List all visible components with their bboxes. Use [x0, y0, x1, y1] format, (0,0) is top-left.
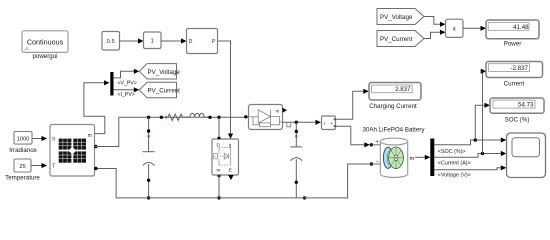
- svg-text:Irradiance: Irradiance: [9, 147, 37, 154]
- svg-text:PV_Voltage: PV_Voltage: [148, 69, 181, 76]
- current measurement block: [322, 116, 336, 130]
- wire 1 to MPPT D: [161, 38, 187, 43]
- svg-text:powergui: powergui: [32, 53, 57, 60]
- PV array block: [50, 125, 98, 177]
- constant block 1: [144, 32, 162, 49]
- MOSFET m output stub arrow: [228, 175, 234, 180]
- wire diode to current sensor: [283, 120, 322, 127]
- battery - wire to bottom rail: [296, 159, 380, 198]
- junction node at left capacitor: [147, 116, 150, 119]
- svg-text:Ir: Ir: [52, 137, 55, 143]
- wire 25 to T: [31, 163, 47, 168]
- svg-text:x: x: [453, 27, 456, 33]
- diode block D1: [249, 105, 288, 130]
- svg-text:PV_Current: PV_Current: [380, 36, 413, 43]
- MPPT subsystem block D/P: [187, 29, 218, 54]
- PV - port dot: [94, 167, 97, 170]
- battery block (cylinder): [380, 138, 407, 177]
- PV + port dot: [94, 145, 97, 148]
- svg-text:1: 1: [151, 39, 154, 45]
- svg-text:0.5: 0.5: [107, 39, 115, 45]
- svg-text:Continuous: Continuous: [27, 37, 64, 46]
- svg-text:m: m: [217, 168, 221, 173]
- wire 0.5 to 1: [120, 38, 144, 43]
- from tag PV_Voltage: [377, 9, 424, 25]
- wire PV_Current to product: [424, 30, 446, 39]
- svg-text:<Current (A)>: <Current (A)>: [438, 161, 471, 167]
- constant block 0.5: [102, 32, 120, 51]
- wire bus to PV_Current goto: [114, 87, 140, 92]
- svg-text:2.837: 2.837: [395, 86, 411, 93]
- wire MPPT P to MOSFET gate: [218, 41, 234, 139]
- battery m output wire: [410, 155, 431, 162]
- svg-text:Power: Power: [504, 41, 522, 48]
- svg-text:<I_PV>: <I_PV>: [118, 92, 135, 98]
- svg-text:i: i: [324, 121, 325, 127]
- junction node MOSFET drain: [217, 116, 220, 119]
- svg-text:–: –: [376, 159, 379, 165]
- wire 1000 to Ir: [32, 136, 47, 141]
- wire sensor i to charging display: [336, 89, 369, 120]
- wire PV m to bus selector (staircase): [84, 80, 110, 133]
- display Power: [486, 20, 539, 48]
- wire sensor - to battery +: [336, 126, 381, 147]
- from tag PV_Current: [377, 31, 424, 47]
- PV panel icon: [59, 139, 86, 163]
- wire SOC to scope and display: [434, 103, 506, 145]
- svg-text:<Voltage (V)>: <Voltage (V)>: [438, 172, 471, 178]
- powergui block U_powergui: [22, 31, 68, 60]
- svg-text:T: T: [52, 164, 55, 170]
- svg-text:m: m: [410, 156, 415, 162]
- junction node at right capacitor: [295, 121, 298, 124]
- MOSFET block: [212, 137, 239, 177]
- svg-text:+: +: [376, 139, 379, 145]
- svg-text:25: 25: [19, 164, 25, 170]
- display SOC: [490, 98, 544, 123]
- svg-text:41.48: 41.48: [513, 24, 529, 31]
- capacitor C1 (left): [143, 117, 155, 199]
- bottom rail wire: [98, 169, 297, 198]
- wire product to Power display: [463, 26, 486, 31]
- product block x: [446, 19, 464, 37]
- svg-text:m: m: [88, 133, 92, 139]
- mosfet symbol: [214, 148, 231, 166]
- capacitor C2 (right): [290, 122, 306, 199]
- wire rail to MOSFET top: [218, 117, 220, 139]
- goto tag PV_Current: [139, 82, 180, 97]
- svg-text:g: g: [229, 142, 232, 147]
- svg-text:PV_Current: PV_Current: [148, 88, 181, 95]
- wire MOSFET source to bottom rail: [218, 175, 220, 198]
- svg-text:54.73: 54.73: [518, 102, 534, 109]
- series RLC branch (resistor + inductor): [160, 113, 212, 120]
- goto tag PV_Voltage: [139, 64, 180, 79]
- svg-text:D: D: [189, 39, 193, 45]
- battery cell icon: [383, 147, 403, 169]
- svg-text:Current: Current: [504, 81, 525, 88]
- constant block 1000: [9, 132, 37, 154]
- svg-text:1000: 1000: [17, 136, 29, 142]
- svg-text:SOC (%): SOC (%): [505, 116, 530, 123]
- display Current: [486, 62, 543, 88]
- svg-text:<SOC (%)>: <SOC (%)>: [438, 149, 466, 155]
- svg-text:m: m: [276, 109, 280, 114]
- svg-text:Temperature: Temperature: [5, 174, 40, 181]
- svg-text:30Ah LiFePO4 Battery: 30Ah LiFePO4 Battery: [363, 127, 426, 134]
- svg-text:Charging Current: Charging Current: [369, 103, 417, 110]
- top rail wire: [119, 116, 249, 118]
- svg-text:+: +: [330, 122, 333, 127]
- svg-text:PV_Voltage: PV_Voltage: [380, 14, 413, 21]
- wire rail to diode, node: [244, 115, 247, 118]
- bus selector 1 (V_PV / I_PV): [110, 72, 113, 96]
- scope block: [507, 133, 546, 178]
- wire bus to PV_Voltage goto: [114, 69, 140, 78]
- bus selector 2 (battery signals): [430, 139, 434, 177]
- wire PV_Voltage to product: [424, 17, 446, 27]
- display Charging Current: [369, 83, 421, 110]
- svg-text:-2.837: -2.837: [510, 65, 528, 72]
- wire PV + to top rail: [95, 117, 119, 146]
- wire Current to scope and display: [434, 69, 506, 158]
- junction node on bottom rail: [217, 196, 220, 199]
- constant block 25: [5, 159, 40, 181]
- svg-text:E: E: [229, 168, 232, 173]
- svg-text:<V_PV>: <V_PV>: [118, 81, 137, 87]
- wire Voltage to scope: [434, 165, 506, 170]
